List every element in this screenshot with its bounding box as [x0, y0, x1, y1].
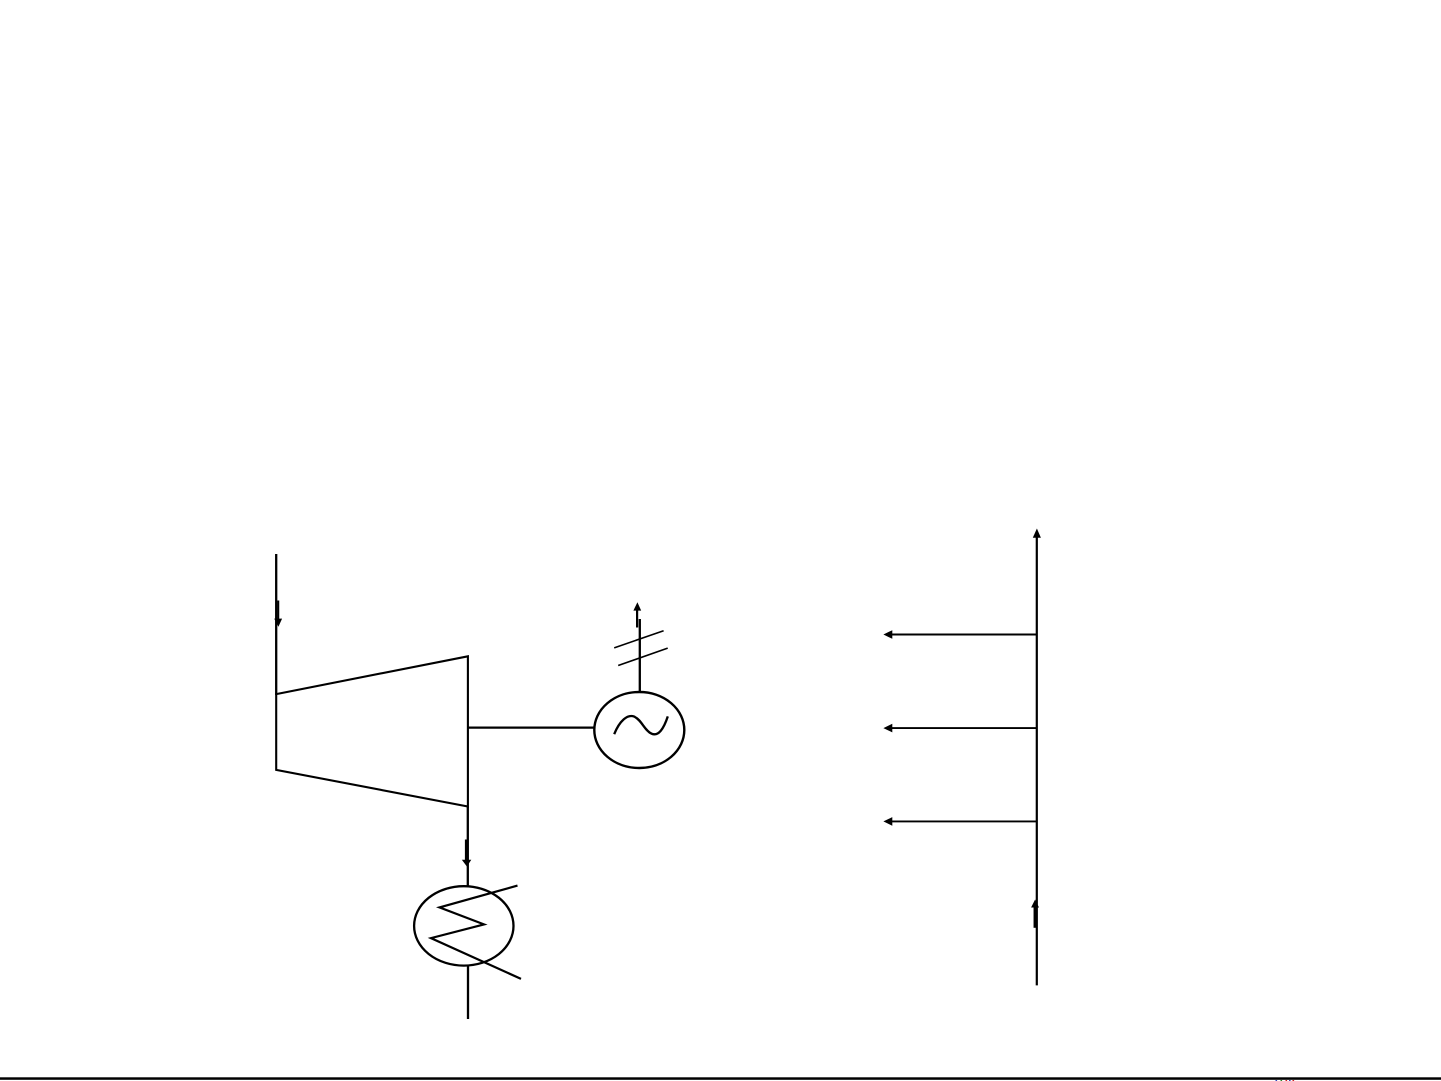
wire turbine exhaust to condenser — [467, 807, 469, 888]
generator G — [594, 692, 684, 768]
arrow heat tap 2 — [883, 724, 1036, 733]
flow arrow down on exhaust wire — [462, 840, 472, 867]
arrow heat tap 3 — [883, 817, 1036, 826]
condenser — [414, 886, 513, 965]
wire steam inlet to turbine — [275, 554, 277, 695]
wire shaft turbine to generator — [468, 726, 595, 728]
arrow heat tap 1 — [883, 630, 1036, 639]
bottom border rule — [0, 1077, 1441, 1080]
wire district heating column — [1036, 537, 1038, 986]
grid slash lower — [618, 648, 668, 665]
generator sine symbol — [614, 716, 668, 734]
flow arrow down on steam inlet — [274, 601, 282, 627]
grid slash upper — [614, 631, 663, 648]
turbine — [276, 656, 468, 806]
wire generator to grid — [639, 619, 641, 693]
flow arrow up on grid wire — [633, 602, 641, 627]
condenser cooling zigzag — [431, 886, 521, 979]
wire condensate outlet — [467, 966, 469, 1020]
watermark speck remnants — [1276, 1080, 1295, 1081]
arrowhead up at top of column — [1033, 529, 1041, 538]
flow arrow up on column — [1031, 900, 1039, 928]
